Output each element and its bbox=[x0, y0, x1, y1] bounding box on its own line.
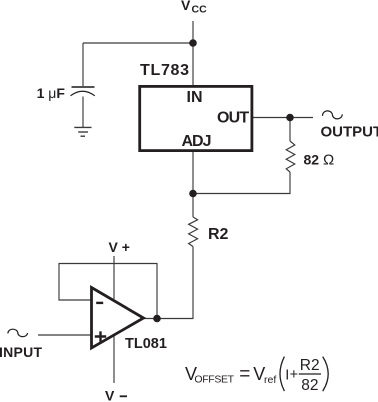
svg-text:OUTPUT: OUTPUT bbox=[321, 124, 378, 141]
svg-text:ref: ref bbox=[264, 374, 276, 386]
svg-text:ADJ: ADJ bbox=[182, 133, 211, 150]
svg-text:IN: IN bbox=[187, 89, 203, 106]
svg-text:INPUT: INPUT bbox=[0, 344, 42, 360]
svg-text:OUT: OUT bbox=[217, 110, 249, 127]
svg-text:CC: CC bbox=[192, 4, 208, 16]
svg-text:+: + bbox=[290, 367, 298, 383]
svg-text:1 μF: 1 μF bbox=[37, 85, 66, 101]
svg-text:82: 82 bbox=[301, 377, 318, 394]
svg-text:V: V bbox=[181, 0, 191, 13]
svg-text:V: V bbox=[105, 388, 115, 402]
svg-text:=: = bbox=[239, 364, 250, 385]
svg-text:TL783: TL783 bbox=[140, 62, 190, 79]
svg-text:OFFSET: OFFSET bbox=[194, 374, 234, 386]
svg-text:V +: V + bbox=[109, 239, 130, 255]
svg-text:TL081: TL081 bbox=[125, 336, 167, 352]
svg-text:R2: R2 bbox=[208, 226, 229, 243]
svg-text:82 Ω: 82 Ω bbox=[304, 152, 335, 169]
svg-text:R2: R2 bbox=[300, 357, 320, 374]
